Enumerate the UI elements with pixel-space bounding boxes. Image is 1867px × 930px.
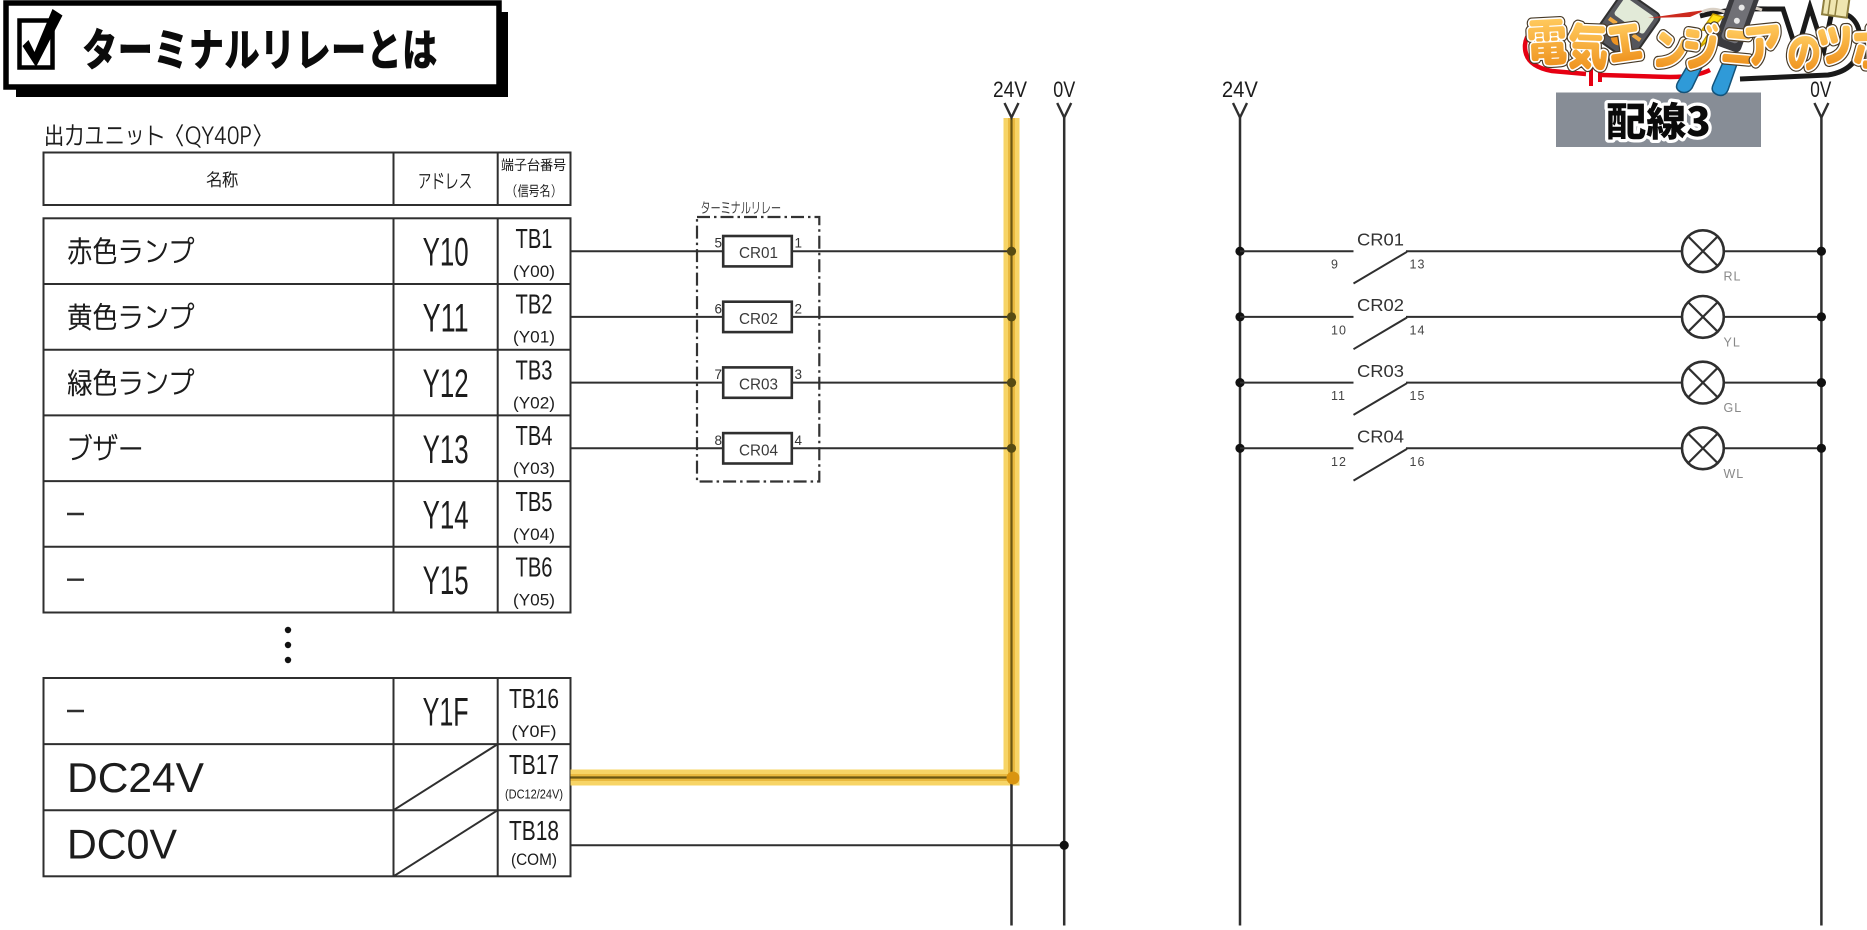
table row Y15 bbox=[67, 551, 555, 609]
table row Y12 bbox=[68, 354, 555, 412]
svg-text:(Y05): (Y05) bbox=[513, 590, 555, 609]
wire relay CR02 to 24V rail bbox=[792, 316, 1012, 318]
svg-text:Y11: Y11 bbox=[423, 296, 469, 340]
svg-text:Y10: Y10 bbox=[423, 231, 469, 275]
contact CR03 (pins 11-15) bbox=[1331, 361, 1425, 415]
wire relay CR03 to 24V rail bbox=[792, 382, 1012, 384]
table row Y10 bbox=[68, 223, 555, 281]
svg-text:24V: 24V bbox=[1222, 77, 1258, 102]
svg-text:TB6: TB6 bbox=[516, 551, 553, 582]
svg-text:(Y02): (Y02) bbox=[513, 393, 555, 412]
junction node on 24V rail bbox=[1007, 247, 1016, 256]
terminal relay dashed enclosure bbox=[697, 217, 819, 482]
lamp YL bbox=[1682, 296, 1741, 349]
svg-text:Y13: Y13 bbox=[423, 428, 469, 472]
svg-text:YL: YL bbox=[1724, 335, 1741, 349]
rung 3: wire from 24V rail bbox=[1235, 378, 1353, 387]
title box bbox=[6, 3, 499, 87]
svg-text:CR02: CR02 bbox=[1357, 295, 1404, 315]
contact CR01 (pins 9-13) bbox=[1331, 229, 1425, 283]
wire relay CR01 to 24V rail bbox=[792, 250, 1012, 252]
wire TB18 to 0V rail bbox=[571, 844, 1065, 846]
svg-text:8: 8 bbox=[714, 433, 722, 448]
junction node on 24V rail bbox=[1007, 444, 1016, 453]
svg-text:14: 14 bbox=[1410, 323, 1426, 337]
row DC0V bbox=[67, 810, 559, 876]
lamp WL bbox=[1682, 427, 1744, 480]
wire lamp WL to 0V rail bbox=[1724, 444, 1826, 453]
svg-text:GL: GL bbox=[1724, 401, 1743, 415]
title box shadow bbox=[16, 12, 508, 97]
svg-text:11: 11 bbox=[1331, 389, 1346, 403]
wire contact to lamp YL bbox=[1406, 316, 1682, 318]
svg-text:TB4: TB4 bbox=[516, 420, 553, 451]
svg-text:13: 13 bbox=[1410, 258, 1426, 272]
svg-text:Y12: Y12 bbox=[423, 362, 469, 406]
svg-text:9: 9 bbox=[1331, 258, 1339, 272]
svg-text:(Y01): (Y01) bbox=[513, 328, 555, 347]
0V rail (left) bbox=[1053, 77, 1075, 926]
rung 2: wire from 24V rail bbox=[1235, 312, 1353, 321]
svg-text:TB18: TB18 bbox=[509, 815, 559, 846]
lamp RL bbox=[1682, 230, 1741, 283]
wire relay CR04 to 24V rail bbox=[792, 447, 1012, 449]
svg-text:TB17: TB17 bbox=[509, 749, 559, 780]
svg-text:TB2: TB2 bbox=[516, 289, 553, 320]
svg-text:15: 15 bbox=[1410, 389, 1426, 403]
site logo 電気エンジニアのツボ bbox=[1525, 0, 1867, 95]
checkbox icon bbox=[20, 9, 63, 68]
table row Y14 bbox=[67, 486, 555, 544]
svg-text:(Y03): (Y03) bbox=[513, 459, 555, 478]
svg-text:DC0V: DC0V bbox=[67, 820, 177, 867]
wire lamp RL to 0V rail bbox=[1724, 247, 1826, 256]
junction node corner of highlighted wire bbox=[1007, 772, 1020, 785]
table row Y11 bbox=[68, 289, 555, 347]
wire contact to lamp WL bbox=[1406, 447, 1682, 449]
lower table body bbox=[44, 678, 571, 876]
table row Y13 bbox=[70, 420, 555, 478]
wire lamp YL to 0V rail bbox=[1724, 312, 1826, 321]
svg-text:CR03: CR03 bbox=[739, 377, 778, 394]
title text bbox=[84, 28, 437, 70]
lamp GL bbox=[1682, 362, 1742, 415]
svg-text:CR04: CR04 bbox=[739, 442, 778, 459]
relay coil CR03 bbox=[723, 367, 792, 397]
svg-text:Y14: Y14 bbox=[423, 493, 469, 537]
svg-text:(Y04): (Y04) bbox=[513, 525, 555, 544]
row Y1F bbox=[67, 683, 559, 741]
svg-text:(Y0F): (Y0F) bbox=[512, 722, 557, 741]
svg-text:24V: 24V bbox=[993, 77, 1027, 102]
junction node on 24V rail bbox=[1007, 312, 1016, 321]
svg-text:(Y00): (Y00) bbox=[513, 262, 555, 281]
svg-text:Y15: Y15 bbox=[423, 559, 469, 603]
svg-text:6: 6 bbox=[714, 301, 722, 316]
svg-text:RL: RL bbox=[1724, 270, 1742, 284]
wire TB1 to relay CR01 bbox=[571, 250, 724, 252]
output unit table body bbox=[44, 218, 571, 612]
table title 出力ユニット〈QY40P〉 bbox=[46, 124, 261, 147]
svg-text:4: 4 bbox=[795, 433, 803, 448]
svg-text:TB1: TB1 bbox=[516, 223, 553, 254]
svg-text:10: 10 bbox=[1331, 323, 1347, 337]
table header row bbox=[44, 153, 571, 206]
wire TB3 to relay CR03 bbox=[571, 382, 724, 384]
wiring-3 label box bbox=[1556, 93, 1761, 148]
relay coil CR02 bbox=[723, 302, 792, 332]
svg-text:0V: 0V bbox=[1053, 77, 1075, 102]
junction node on 24V rail bbox=[1007, 378, 1016, 387]
contact CR02 (pins 10-14) bbox=[1331, 295, 1425, 349]
svg-text:3: 3 bbox=[795, 367, 803, 382]
svg-text:TB16: TB16 bbox=[509, 683, 559, 714]
svg-text:CR03: CR03 bbox=[1357, 361, 1404, 381]
svg-text:16: 16 bbox=[1410, 455, 1426, 469]
svg-text:(DC12/24V): (DC12/24V) bbox=[505, 788, 563, 802]
wire TB4 to relay CR04 bbox=[571, 447, 724, 449]
svg-text:12: 12 bbox=[1331, 455, 1347, 469]
svg-text:DC24V: DC24V bbox=[67, 754, 204, 801]
wire lamp GL to 0V rail bbox=[1724, 378, 1826, 387]
svg-text:CR04: CR04 bbox=[1357, 427, 1404, 447]
junction node TB18/0V bbox=[1060, 841, 1069, 850]
rung 1: wire from 24V rail bbox=[1235, 247, 1353, 256]
24V rail (right) bbox=[1222, 77, 1258, 926]
rung 4: wire from 24V rail bbox=[1235, 444, 1353, 453]
relay coil CR01 bbox=[723, 236, 792, 266]
svg-text:(COM): (COM) bbox=[511, 850, 557, 869]
svg-text:TB3: TB3 bbox=[516, 354, 553, 385]
svg-text:WL: WL bbox=[1724, 467, 1745, 481]
svg-text:CR02: CR02 bbox=[739, 311, 778, 328]
contact CR04 (pins 12-16) bbox=[1331, 427, 1425, 481]
svg-text:Y1F: Y1F bbox=[423, 691, 469, 735]
wire contact to lamp RL bbox=[1406, 250, 1682, 252]
svg-text:CR01: CR01 bbox=[1357, 229, 1404, 249]
relay coil CR04 bbox=[723, 433, 792, 463]
svg-text:1: 1 bbox=[795, 236, 803, 251]
wire TB2 to relay CR02 bbox=[571, 316, 724, 318]
svg-text:7: 7 bbox=[714, 367, 722, 382]
24V rail (left) bbox=[993, 77, 1027, 926]
ellipsis dots bbox=[285, 627, 291, 663]
0V rail (right) bbox=[1810, 77, 1831, 926]
svg-text:5: 5 bbox=[714, 236, 722, 251]
svg-text:2: 2 bbox=[795, 301, 803, 316]
terminal relay label bbox=[702, 201, 781, 213]
highlighted 24V supply wire (yellow) bbox=[571, 118, 1012, 778]
row DC24V bbox=[67, 744, 563, 810]
wire contact to lamp GL bbox=[1406, 382, 1682, 384]
svg-text:CR01: CR01 bbox=[739, 245, 778, 262]
svg-text:0V: 0V bbox=[1810, 77, 1831, 102]
svg-text:TB5: TB5 bbox=[516, 486, 553, 517]
